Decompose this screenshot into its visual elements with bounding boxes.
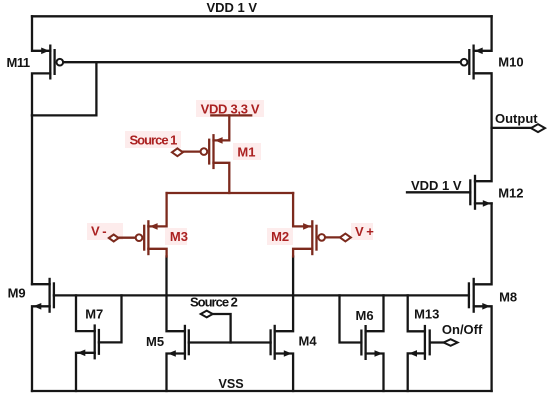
- wire M4 source to VSS: [275, 354, 293, 392]
- wire VDD 1V top rail: [32, 15, 492, 17]
- transistor M8: [469, 278, 490, 313]
- wire M8 drain to M12 source: [474, 203, 492, 284]
- wire M7 drain to bias rail: [76, 295, 95, 331]
- wire M7 source to VSS: [76, 353, 95, 391]
- wire M11 drain down-left: [32, 73, 50, 115]
- transistor M10: [461, 45, 483, 80]
- wire M1 drain to tail rail: [214, 163, 230, 193]
- wire M7 gate to bias rail: [99, 295, 122, 342]
- svg-text:Source 2: Source 2: [190, 294, 238, 309]
- port Source 2 diamond: [201, 311, 213, 318]
- wire M5 drain riser: [167, 257, 185, 332]
- wire M2 gate to V+ port: [325, 236, 340, 238]
- wire M3 gate to V- port: [118, 237, 135, 239]
- wire gate bus M5 to M4: [189, 341, 271, 343]
- wire M8 source to VSS: [474, 306, 492, 391]
- svg-text:V +: V +: [355, 224, 374, 239]
- wire M12 drain to output node: [475, 128, 492, 181]
- svg-text:On/Off: On/Off: [442, 322, 483, 337]
- wire M3 drain stub: [148, 249, 166, 257]
- wire M6 source to VSS: [366, 354, 384, 392]
- svg-text:V -: V -: [91, 224, 106, 239]
- svg-text:M8: M8: [499, 290, 517, 305]
- transistor M3: [136, 220, 158, 255]
- wire Output stub: [492, 127, 531, 129]
- transistor M11: [41, 45, 63, 80]
- wire M1 gate to Source 1 port: [183, 150, 201, 152]
- wire M13 source to VSS: [408, 353, 425, 391]
- transistor M4: [271, 325, 292, 360]
- svg-text:Output: Output: [495, 111, 538, 126]
- wire M9 drain stub: [32, 283, 50, 285]
- transistor M7: [77, 324, 99, 359]
- wire M2 drain stub: [293, 249, 312, 257]
- wire M1 supply bar VDD 3,3 V: [211, 114, 251, 116]
- wire Source 2 drop: [213, 314, 231, 343]
- wire M12 gate supply bar VDD 1 V: [407, 191, 470, 193]
- transistor M13: [409, 325, 430, 360]
- svg-text:M3: M3: [170, 229, 188, 244]
- wire M13 drain to bias rail: [408, 295, 425, 331]
- wire bias rail M9 gate to M8 gate: [54, 294, 469, 296]
- port On/Off diamond: [444, 339, 458, 346]
- wire M4 drain riser: [275, 257, 293, 332]
- wire gate rail M11 to M10: [63, 61, 460, 63]
- wire M11 source to rail: [32, 16, 50, 51]
- wire M1 source to supply bar: [214, 115, 230, 140]
- wire M12 source stub: [475, 202, 492, 204]
- svg-text:VDD 1 V: VDD 1 V: [207, 0, 258, 15]
- wire M9 source to VSS: [32, 306, 50, 391]
- wire M10 source to rail: [474, 16, 492, 51]
- transistor M1: [201, 134, 223, 169]
- svg-text:Source 1: Source 1: [130, 133, 178, 148]
- wire M13 gate to On/Off port: [431, 341, 444, 343]
- port Output diamond: [531, 124, 545, 132]
- svg-text:M10: M10: [498, 55, 523, 70]
- svg-text:M13: M13: [414, 307, 439, 322]
- transistor M5: [168, 325, 189, 360]
- svg-text:VSS: VSS: [219, 377, 244, 391]
- svg-text:VDD 3,3 V: VDD 3,3 V: [201, 101, 260, 116]
- svg-text:M4: M4: [299, 333, 318, 348]
- wire M6 gate to bias rail: [340, 295, 362, 342]
- svg-text:M9: M9: [8, 286, 26, 301]
- wire M3 source riser: [148, 193, 166, 226]
- wire M5 source to VSS: [167, 354, 185, 392]
- wire tail rail: [167, 192, 294, 194]
- port V- diamond: [109, 235, 119, 242]
- transistor M2: [303, 220, 325, 255]
- svg-text:VDD 1 V: VDD 1 V: [411, 178, 462, 193]
- svg-text:M12: M12: [498, 186, 523, 201]
- svg-text:M6: M6: [356, 308, 374, 323]
- svg-text:M7: M7: [85, 306, 103, 321]
- svg-text:M2: M2: [271, 229, 289, 244]
- svg-text:M5: M5: [146, 334, 164, 349]
- wire VSS rail: [32, 390, 492, 392]
- transistor M6: [361, 325, 382, 360]
- red section: M1, M3, M2 and ports: [118, 115, 340, 256]
- transistor M12: [470, 175, 491, 210]
- svg-text:M1: M1: [237, 144, 255, 159]
- wire M2 source riser: [293, 193, 312, 226]
- halo tints behind red labels (jpeg-like): [87, 100, 373, 245]
- svg-text:M11: M11: [7, 55, 30, 70]
- port V+ diamond: [340, 234, 351, 242]
- wire M6 drain to bias rail: [366, 295, 384, 331]
- wire M10 drain to output node: [474, 73, 492, 128]
- wire left vertical M11 drain to M9 drain: [31, 115, 33, 284]
- port Source 1 diamond: [172, 148, 183, 156]
- transistor M9: [33, 278, 54, 313]
- wire M11 gate-drain feedback: [32, 62, 96, 115]
